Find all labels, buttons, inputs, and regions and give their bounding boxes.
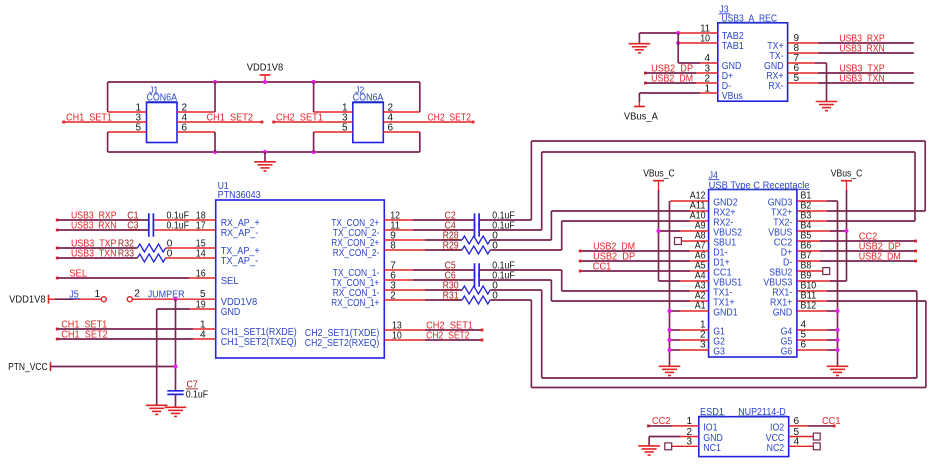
- wire J3 pin 7 GND: [788, 53, 827, 64]
- wire U1 pin 11 to C4: [384, 221, 474, 232]
- wire VDD1V8 top rail: [108, 81, 420, 83]
- net label CH2_SET2: [427, 112, 471, 123]
- net label USB2_DP at J4 right: [859, 241, 901, 252]
- svg-text:CC1: CC1: [822, 416, 841, 427]
- power symbol VDD1V8 at top: [247, 63, 284, 83]
- wire J1 pin 6: [177, 122, 215, 133]
- wire CH1_SET1 to U1 pin 1: [57, 319, 216, 330]
- connector J4: [709, 190, 797, 358]
- wire R29 to J4 A10: [490, 221, 708, 250]
- J4 pin number A12: [690, 190, 706, 201]
- node junction G4: [835, 328, 839, 332]
- J4 value USB Type C Receptacle: [708, 180, 810, 191]
- svg-text:1: 1: [94, 289, 100, 300]
- net label SEL: [56, 269, 88, 280]
- connector J3: [718, 23, 788, 101]
- J4 pin name GND2: [713, 198, 738, 209]
- J4 pin name SBU2: [769, 268, 792, 279]
- J2 reference designator: [355, 86, 365, 97]
- J4 pin name GND: [773, 308, 793, 319]
- wire ESD1 pin 4 NC2 stub: [789, 437, 814, 448]
- net label USB3_TXP: [56, 239, 117, 250]
- svg-text:2: 2: [134, 289, 140, 300]
- capacitor C6: [444, 271, 479, 287]
- J4 pin name SBU1: [713, 238, 736, 249]
- J4 pin name TX2+: [771, 208, 792, 219]
- J4 pin name GND3: [768, 198, 793, 209]
- svg-text:14: 14: [196, 249, 206, 260]
- wire J2 pin 5: [314, 122, 353, 133]
- U1 pin name RX_CON_1+: [331, 298, 379, 309]
- net label CH2_SET1 at U1: [426, 320, 473, 331]
- wire USB3_RXN to C3: [57, 229, 148, 231]
- U1 pin name TX_CON_1+: [331, 278, 379, 289]
- wire J4 B9 VBUS3: [797, 280, 847, 282]
- J4 pin number B5: [801, 230, 812, 241]
- J3 pin name GND: [722, 61, 742, 72]
- svg-text:6: 6: [182, 122, 188, 133]
- J4 pin number 2: [700, 329, 706, 340]
- ESD1 pin name IO2: [770, 423, 785, 434]
- node junction bottom rail at GND: [263, 150, 267, 154]
- J4 pin number A5: [695, 260, 706, 271]
- J4 pin number A9: [695, 220, 706, 231]
- ESD1 pin name GND: [703, 433, 723, 444]
- J4 pin number B10: [801, 280, 817, 291]
- node junction G3: [667, 348, 671, 352]
- wire J4 A4 VBUS1: [659, 280, 709, 282]
- net label USB3_RXN at J3: [839, 43, 885, 54]
- wire J2 pin 3 net CH2_SET1: [274, 112, 353, 123]
- wire U1 pin 8 to R29: [384, 241, 462, 252]
- svg-text:NC2: NC2: [767, 443, 785, 454]
- J4 pin number B2: [801, 200, 812, 211]
- J4 pin number 5: [801, 329, 807, 340]
- svg-text:CH2_SET2: CH2_SET2: [426, 330, 470, 341]
- net label CH1_SET1 at U1: [56, 320, 108, 331]
- power symbol PTN_VCC: [8, 362, 50, 373]
- net label CH1_SET2: [207, 112, 254, 123]
- ground symbol at ESD1: [638, 446, 660, 455]
- wire U1 pin 12 to C2: [384, 211, 474, 222]
- connector J2: [353, 103, 384, 143]
- wire J3 pin 5 net USB3_TXN: [788, 73, 914, 84]
- J4 pin number A2: [695, 290, 706, 301]
- C2 value 0.1uF: [492, 211, 515, 222]
- J4 pin name RX2+: [713, 208, 735, 219]
- wire TAB vertical to pin 4: [677, 33, 679, 63]
- ground symbol below J4 left: [659, 366, 681, 375]
- capacitor C2: [444, 211, 479, 227]
- J4 pin number 1: [700, 319, 706, 330]
- U1 pin name RX_AP_+: [221, 218, 260, 229]
- J4 pin name D+: [781, 248, 793, 259]
- resistor R31: [442, 291, 490, 304]
- capacitor C7: [167, 380, 198, 395]
- wire J4 B8 SBU2 stub: [797, 270, 823, 272]
- wire J4 A1 GND1: [670, 310, 709, 312]
- wire ESD1 pin 3 NC1 stub: [672, 437, 699, 448]
- net label CC2 at J4 right: [859, 231, 878, 242]
- svg-text:CH2_SET1: CH2_SET1: [276, 112, 323, 123]
- svg-text:1: 1: [686, 416, 692, 427]
- wire U1 pin 19 GND: [157, 299, 216, 310]
- ESD1 value NUP2114-D: [738, 407, 787, 418]
- wire J1 right vertical to bottom rail: [214, 132, 216, 152]
- wire GND bottom rail: [108, 151, 420, 153]
- resistor R33: [118, 249, 166, 262]
- wire U1 pin 6 to C6: [384, 271, 474, 282]
- wire J4 G6: [797, 349, 838, 351]
- net label CC2 at ESD1: [647, 416, 671, 427]
- ground symbol below rail: [254, 152, 276, 171]
- J4 pin number A7: [695, 240, 706, 251]
- C5 value 0.1uF: [492, 261, 515, 272]
- wire ESD1 pin 2 GND: [649, 427, 699, 438]
- ground symbol below C7: [165, 407, 187, 416]
- J4 pin name RX1+: [770, 298, 792, 309]
- R29 value 0: [492, 241, 498, 252]
- wire C4 to inner top loop: [480, 229, 542, 231]
- resistor R30: [442, 281, 490, 294]
- power symbol VBus_A: [624, 102, 658, 123]
- J5 value JUMPER: [148, 290, 185, 301]
- C4 value 0.1uF: [492, 221, 515, 232]
- node junction bottom rail at J1: [213, 150, 217, 154]
- svg-text:VBus: VBus: [722, 91, 743, 102]
- R31 value 0: [492, 291, 498, 302]
- J4 pin name TX2-: [773, 218, 792, 229]
- svg-text:TX_AP_-: TX_AP_-: [221, 256, 259, 267]
- J4 pin name D1-: [713, 248, 727, 259]
- U1 reference designator: [218, 181, 230, 192]
- ESD protection ESD1: [699, 417, 789, 457]
- wire U1 pin 2 to R31: [384, 291, 462, 302]
- wire U1 pin 13 net CH2_SET1: [384, 320, 483, 331]
- svg-text:GND1: GND1: [713, 308, 738, 319]
- svg-text:IO1: IO1: [703, 423, 718, 434]
- svg-text:GND: GND: [773, 308, 793, 319]
- J3 pin name TX-: [769, 51, 783, 62]
- svg-text:USB3_RXN: USB3_RXN: [839, 43, 885, 54]
- U1 pin name TX_AP_-: [221, 256, 259, 267]
- wire J4 B5 CC2: [797, 240, 917, 243]
- ground symbol left of J3: [629, 33, 651, 53]
- J4 pin name RX2-: [713, 218, 733, 229]
- svg-text:SEL: SEL: [221, 276, 239, 287]
- wire J2 pin 6: [383, 122, 420, 133]
- net label CC1 at J4 left: [593, 261, 612, 272]
- svg-text:8: 8: [390, 241, 396, 252]
- wire VBus_C left vertical: [658, 190, 660, 281]
- svg-text:B12: B12: [801, 300, 817, 311]
- svg-text:5: 5: [342, 122, 348, 133]
- svg-text:A1: A1: [695, 300, 706, 311]
- svg-text:16: 16: [196, 269, 206, 280]
- wire J4 B7 D-: [797, 260, 917, 263]
- wire J4 A6 D1+: [579, 260, 709, 263]
- capacitor C4: [444, 221, 479, 237]
- J3 pin name RX-: [768, 81, 783, 92]
- power symbol VDD1V8 at J5: [9, 295, 48, 306]
- node junction top rail at J2: [312, 80, 316, 84]
- svg-text:10: 10: [700, 33, 710, 44]
- svg-text:2: 2: [390, 291, 396, 302]
- J3 reference designator: [719, 5, 730, 16]
- no-connect square at NC2: [813, 443, 820, 450]
- capacitor C1: [127, 211, 154, 227]
- wire PTN_VCC to VDD1V8 vertical: [51, 366, 176, 368]
- J4 pin number B6: [801, 240, 812, 251]
- wire C2 to top loop: [480, 219, 532, 221]
- wire CC2 to ESD1 pin 1: [648, 416, 699, 427]
- J4 pin number A6: [695, 250, 706, 261]
- node junction top rail at J1: [213, 80, 217, 84]
- no-connect square at VCC: [813, 433, 820, 440]
- wire C1 to U1 pin 18: [154, 211, 216, 222]
- wire J1 left vertical to bottom rail: [107, 132, 109, 152]
- node junction GND1: [667, 309, 671, 313]
- wire J4 G5: [797, 339, 838, 341]
- wire J4 B6 D+: [797, 250, 917, 253]
- wire J4 A8 SBU1 stub: [682, 240, 709, 242]
- svg-text:6: 6: [801, 339, 807, 350]
- J4 pin number B8: [801, 260, 812, 271]
- node junction VBUS: [844, 229, 848, 233]
- svg-text:6: 6: [388, 122, 394, 133]
- R32 value 0: [167, 239, 173, 250]
- node junction B12 GND: [835, 309, 839, 313]
- J4 pin name D1+: [713, 258, 730, 269]
- svg-text:PTN_VCC: PTN_VCC: [8, 362, 48, 373]
- wire VDD1V8 vertical to C7: [175, 299, 177, 390]
- J4 pin number B11: [801, 290, 817, 301]
- J3 pin name D+: [722, 71, 734, 82]
- connector J1: [147, 103, 178, 143]
- J4 pin name TX1-: [713, 288, 732, 299]
- J1 reference designator: [149, 86, 159, 97]
- svg-text:VDD1V8: VDD1V8: [9, 295, 46, 306]
- U1 pin name TX_CON_1-: [333, 268, 380, 279]
- wire VBus vertical to VBus_A: [638, 93, 640, 102]
- wire R33 to U1 pin 14: [166, 249, 216, 260]
- J4 pin name VBUS2: [713, 228, 742, 239]
- jumper J5 pin 2 circle: [127, 289, 140, 302]
- wire J4 B1 GND3 to ground: [797, 201, 838, 366]
- node junction PTN_VCC: [173, 364, 177, 368]
- wire R28 to J4 A11: [490, 211, 708, 240]
- J3 pin name TAB2: [722, 31, 744, 42]
- ESD1 pin name IO1: [703, 423, 718, 434]
- svg-text:USB3_TXN: USB3_TXN: [839, 73, 885, 84]
- svg-text:CH2_SET2(RXEQ): CH2_SET2(RXEQ): [305, 338, 380, 349]
- J4 pin name GND1: [713, 308, 738, 319]
- J4 pin name G4: [781, 327, 793, 338]
- wire J5 pin 2 to U1 pin 5: [132, 289, 215, 300]
- J4 pin number B9: [801, 270, 812, 281]
- svg-text:G3: G3: [713, 347, 725, 358]
- wire J4 A9 VBUS2: [659, 230, 709, 232]
- wire U1 pin 9 to R28: [384, 231, 462, 242]
- J4 pin number B3: [801, 210, 812, 221]
- svg-text:0.1uF: 0.1uF: [186, 390, 209, 401]
- ground symbol right of J3: [816, 102, 838, 111]
- J4 pin name G5: [781, 337, 793, 348]
- J4 pin number B7: [801, 250, 812, 261]
- wire ESD1 pin 5 VCC stub: [789, 427, 814, 438]
- U1 value PTN36043: [218, 190, 261, 201]
- svg-text:VBus_C: VBus_C: [831, 169, 863, 180]
- svg-text:6: 6: [794, 416, 800, 427]
- wire U1 pin 10 net CH2_SET2: [384, 330, 483, 341]
- U1 pin name RX_CON_2-: [333, 248, 380, 259]
- wire J4 A5 CC1: [579, 270, 709, 273]
- ESD1 reference designator: [700, 407, 726, 418]
- J4 pin name CC1: [713, 268, 732, 279]
- svg-text:TAB1: TAB1: [722, 41, 744, 52]
- U1 pin name CH2_SET2(RXEQ): [305, 338, 380, 349]
- J4 pin number B1: [801, 190, 812, 201]
- svg-text:PTN36043: PTN36043: [218, 190, 261, 201]
- svg-text:G6: G6: [781, 347, 793, 358]
- J3 pin name RX+: [766, 71, 784, 82]
- J3 pin name VBus: [722, 91, 743, 102]
- wire J3 pin 1 VBus: [639, 83, 717, 94]
- J2 value CON6A: [353, 92, 384, 103]
- svg-text:R31: R31: [443, 291, 459, 302]
- net label USB3_RXN: [56, 221, 117, 232]
- resistor R32: [118, 239, 166, 252]
- no-connect square at NC1: [665, 443, 672, 450]
- J4 pin number A8: [695, 230, 706, 241]
- svg-text:R33: R33: [118, 249, 134, 260]
- wire TX_CON_2+ top loop to J4 B2: [531, 141, 925, 220]
- J5 reference designator: [69, 290, 80, 301]
- wire J1 pin 5: [108, 122, 147, 133]
- wire J4 G2: [670, 339, 709, 341]
- resistor R28: [442, 231, 490, 244]
- svg-text:1: 1: [704, 83, 710, 94]
- net label CH2_SET1: [272, 112, 323, 123]
- net label USB2_DM at J4 right: [859, 251, 901, 262]
- wire J1 pin 2: [177, 102, 215, 113]
- U1 pin name CH2_SET1(TXDE): [305, 328, 380, 339]
- wire R30 bottom loop to J4 B10: [490, 290, 917, 378]
- J4 pin number A10: [690, 210, 706, 221]
- J4 pin number A3: [695, 280, 706, 291]
- net label USB3_RXP: [56, 211, 117, 222]
- J4 reference designator: [708, 170, 719, 181]
- J4 pin number 4: [801, 319, 807, 330]
- J4 pin number A1: [695, 300, 706, 311]
- wire J1 pin 3 net CH1_SET1: [64, 112, 147, 123]
- J4 pin name RX1-: [772, 288, 792, 299]
- wire J4 G4: [797, 329, 838, 331]
- C1 value 0.1uF: [167, 211, 190, 222]
- U1 pin name TX_AP_+: [221, 246, 260, 257]
- net label CH1_SET1: [62, 112, 112, 123]
- J4 pin name VBUS3: [763, 278, 792, 289]
- node junction top rail at VDD1V8: [263, 80, 267, 84]
- wire J4 G3: [670, 349, 709, 351]
- J4 pin name CC2: [774, 238, 793, 249]
- U1 pin name TX_CON_2-: [333, 228, 380, 239]
- U1 pin name RX_CON_1-: [333, 288, 380, 299]
- U1 pin name CH1_SET1(RXDE): [221, 327, 297, 338]
- wire J2 pin 2: [383, 102, 420, 113]
- U1 pin name TX_CON_2+: [331, 218, 379, 229]
- svg-text:CH1_SET2: CH1_SET2: [207, 112, 254, 123]
- J4 pin name G2: [713, 337, 725, 348]
- svg-text:19: 19: [196, 299, 206, 310]
- node junction VBUS2: [656, 229, 660, 233]
- resistor R29: [442, 241, 490, 254]
- node junction G1: [667, 328, 671, 332]
- svg-text:5: 5: [135, 122, 141, 133]
- wire J3 pin 4 GND: [678, 53, 718, 64]
- J4 pin number A4: [695, 270, 706, 281]
- net label USB3_TXN at J3: [839, 73, 885, 84]
- wire C3 to U1 pin 17: [154, 221, 216, 232]
- J4 pin number 6: [801, 339, 807, 350]
- wire J1 pin 4 net CH1_SET2: [177, 112, 263, 123]
- net label USB2_DP at J3: [644, 63, 693, 74]
- wire J1 pin 1: [108, 102, 147, 113]
- U1 pin name RX_AP_-: [221, 228, 259, 239]
- wire J4 B4 VBUS: [797, 230, 847, 232]
- wire C7 to ground: [175, 394, 177, 407]
- J3 pin name TX+: [767, 41, 784, 52]
- wire J4 A12 GND2 to ground: [670, 201, 709, 366]
- no-connect square at A8: [675, 238, 682, 245]
- C6 value 0.1uF: [492, 271, 515, 282]
- svg-text:RX-: RX-: [768, 81, 783, 92]
- J4 pin name D-: [783, 258, 792, 269]
- net label USB2_DM at J4 left: [593, 241, 635, 252]
- wire USB3_RXP to C1: [57, 219, 148, 221]
- jumper J5 pin 1 circle: [101, 297, 106, 302]
- wire J2 left vertical to bottom rail: [313, 132, 315, 152]
- J3 pin name GND: [764, 61, 784, 72]
- J3 value USB3_A_REC: [721, 13, 778, 24]
- wire J3 pin 8 net USB3_RXN: [788, 43, 914, 54]
- svg-text:10: 10: [392, 330, 402, 341]
- svg-text:4: 4: [794, 437, 800, 448]
- wire U1 pin 7 to C5: [384, 261, 474, 272]
- wire ESD1 GND vertical: [648, 437, 650, 446]
- node junction bottom rail at J2: [312, 150, 316, 154]
- U1 pin name GND: [221, 307, 241, 318]
- svg-text:VDD1V8: VDD1V8: [247, 63, 284, 74]
- wire C6 to J4 A2: [480, 280, 709, 301]
- wire J2 right vertical to bottom rail: [419, 132, 421, 152]
- net label USB2_DP at J4 left: [593, 251, 635, 262]
- wire R32 to U1 pin 15: [166, 239, 216, 250]
- R33 value 0: [167, 249, 173, 260]
- wire J3 pin 3 D+: [645, 63, 717, 74]
- net label USB3_TXP at J3: [839, 63, 885, 74]
- capacitor C5: [444, 261, 479, 277]
- svg-text:3: 3: [686, 437, 692, 448]
- J4 pin name VBUS1: [713, 278, 742, 289]
- net label USB2_DM at J3: [644, 73, 693, 84]
- power symbol VBus_C left: [643, 169, 675, 191]
- wire J3 GND vertical: [826, 63, 828, 101]
- svg-text:4: 4: [200, 329, 206, 340]
- node junction G5: [835, 338, 839, 342]
- capacitor C3: [127, 221, 154, 237]
- U1 pin name RX_CON_2+: [331, 238, 379, 249]
